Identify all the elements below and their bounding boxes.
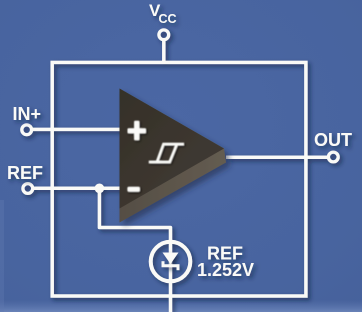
svg-text:CC: CC xyxy=(159,12,177,26)
svg-text:OUT: OUT xyxy=(314,130,352,150)
svg-text:IN+: IN+ xyxy=(13,104,42,124)
svg-text:REF: REF xyxy=(7,163,43,183)
svg-text:1.252V: 1.252V xyxy=(197,260,254,280)
